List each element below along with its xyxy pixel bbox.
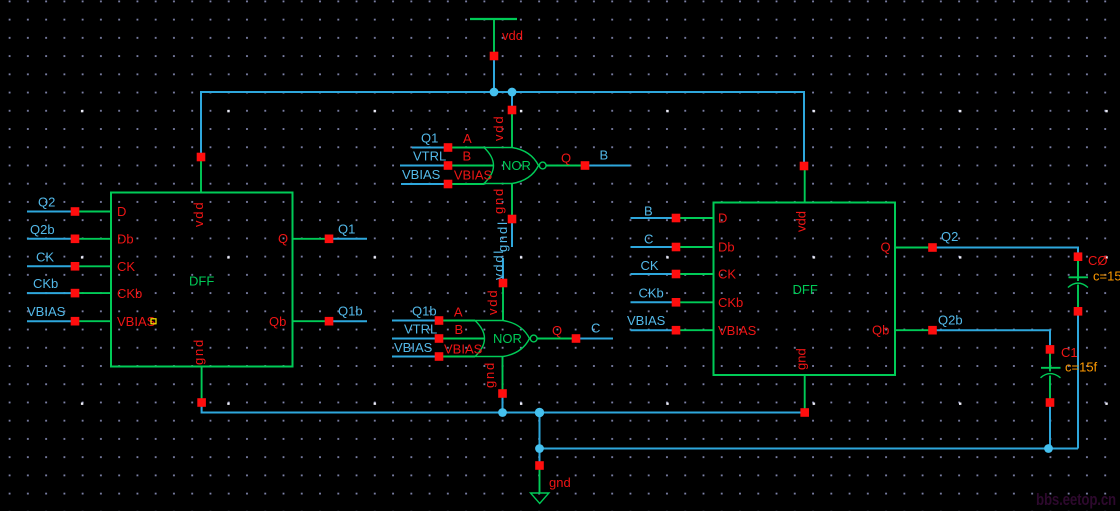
svg-text:gnd: gnd [794,348,809,370]
wire net Q2 to D [27,211,71,213]
DFF U_left box [111,193,293,367]
pin stub right gnd [804,375,806,409]
svg-text:Q1b: Q1b [338,304,363,319]
pin left rail vdd [197,153,206,162]
wire net C to right Db [631,246,673,248]
pin stub D [79,211,111,213]
node rail-NOR1 junction [508,88,517,97]
svg-text:CKb: CKb [639,285,664,300]
svg-text:Q1: Q1 [338,221,355,236]
pin stub Q [293,238,326,240]
wire gnd stem [539,413,541,462]
svg-text:VBIAS: VBIAS [27,304,66,319]
capacitor C0 bottom lead [1077,285,1079,308]
pin stub Db [79,238,111,240]
capacitor C0 bottom plate [1068,283,1088,287]
svg-text:Q2: Q2 [941,229,958,244]
pin right Db [672,243,681,252]
svg-text:CKb: CKb [117,286,142,301]
svg-text:VBIAS: VBIAS [627,313,666,328]
gnd symbol triangle [531,493,549,504]
wire net VBIAS left [27,320,71,322]
wire net Q2b to C1 [937,330,1051,345]
wire net CK left [27,265,71,267]
capacitor C1 top lead [1049,353,1051,367]
pin NOR1 VBIAS [444,180,453,189]
pin stub right CK [680,273,714,275]
svg-text:vdd: vdd [491,115,506,141]
pin NOR2 VBIAS [435,352,444,361]
wire C1 bottom to bus [1049,407,1051,449]
svg-text:VBIAS: VBIAS [394,340,433,355]
svg-text:vdd: vdd [794,211,809,232]
wire net vddl stub [502,258,504,279]
wire vdd stem [493,60,495,92]
wire net CKb left [27,292,71,294]
wire net C (NOR2 output) [580,338,613,340]
svg-text:VBIAS: VBIAS [117,314,156,329]
svg-text:C: C [591,321,600,336]
pin left Db [71,235,80,244]
pin C1 top [1046,345,1055,354]
svg-text:CK: CK [117,259,135,274]
pin NOR2 B [435,334,444,343]
pin NOR2 vdd [499,279,508,288]
pin right VBIAS [672,326,681,335]
node C1-bus junction [1044,444,1053,453]
svg-text:NOR: NOR [502,158,531,173]
NOR2 stub A [443,320,475,322]
svg-text:CKb: CKb [718,295,743,310]
pin stub right Qb [895,329,929,331]
svg-text:Q2b: Q2b [30,222,55,237]
svg-text:Q: Q [561,151,571,166]
pin NOR2 gnd [498,389,507,398]
NOR1 stub VBIAS [452,183,484,185]
svg-text:Qb: Qb [269,314,286,329]
pin NOR1 vdd [508,106,517,115]
op-gate NOR1 body [484,148,539,184]
pin NOR1 Q [581,161,590,170]
capacitor C0 top lead [1077,261,1079,278]
svg-text:C: C [644,231,653,246]
svg-text:B: B [600,148,609,163]
node gndrail-NOR2 junction [498,408,507,417]
vdd symbol bar [470,18,517,20]
svg-text:C1: C1 [1061,345,1078,360]
pin stub CK [79,265,111,267]
pin NOR1 gnd [508,215,517,224]
svg-text:gnd: gnd [491,187,506,214]
wire NOR1 input B [400,165,444,167]
pin stub left gnd [201,367,203,399]
svg-text:gnd: gnd [549,475,571,490]
pin stub VBIAS [79,320,111,322]
pin stub CKb [79,292,111,294]
pin NOR1 B [444,161,453,170]
svg-text:Q: Q [278,231,288,246]
wire NOR1 input A [412,147,444,149]
NOR2 gnd pin stub [502,357,504,390]
pin NOR1 A [444,143,453,152]
svg-text:bbs.eetop.cn: bbs.eetop.cn [1036,490,1116,509]
svg-text:CK: CK [36,249,54,264]
pin right Qb [928,326,937,335]
pin stub right D [680,217,714,219]
svg-text:vdd: vdd [191,201,206,227]
pin left VBIAS [71,317,80,326]
wire NOR1 input VBIAS [401,183,444,185]
NOR2 stub B [443,338,484,340]
wire net Q2b to Db [27,238,71,240]
svg-text:B: B [644,203,653,218]
wire net B to right D [631,217,673,219]
svg-text:DFF: DFF [793,282,818,297]
capacitor C1 center tick [1049,368,1051,372]
wire net VBIAS right [631,329,673,331]
svg-text:A: A [454,305,463,320]
pin left CKb [71,289,80,298]
wire net Q1b [333,320,367,322]
svg-text:vdd: vdd [485,289,500,315]
node stem-bus junction [535,444,544,453]
wire NOR1 vdd drop [511,92,513,106]
svg-text:vdd: vdd [502,28,523,43]
pin left D [71,207,80,216]
svg-text:Q2b: Q2b [938,313,963,328]
svg-text:D: D [117,204,126,219]
pin left gnd [197,398,206,407]
op-gate NOR2 body [475,321,530,357]
svg-text:Q2: Q2 [38,195,55,210]
wire left DFF vdd stub [200,161,202,193]
pin VBIAS tap square (yellow) [151,319,156,324]
svg-text:VBIAS: VBIAS [454,167,493,182]
NOR1 bubble [539,162,546,169]
svg-text:VTRL: VTRL [413,149,446,164]
svg-text:B: B [455,322,464,337]
svg-text:CK: CK [641,258,659,273]
wire NOR2 input B [392,338,435,340]
pin NOR2 Q [572,334,581,343]
svg-text:DFF: DFF [189,274,214,289]
wire vdd rail (top) [201,92,804,162]
svg-text:Db: Db [718,240,735,255]
svg-text:gnd: gnd [482,361,497,388]
svg-text:VTRL: VTRL [404,322,437,337]
wire C0 bottom to bus [1077,315,1079,448]
svg-text:B: B [463,149,472,164]
svg-text:VBIAS: VBIAS [444,341,483,356]
svg-text:NOR: NOR [493,331,522,346]
svg-text:Q: Q [552,323,562,338]
svg-text:VBIAS: VBIAS [718,323,757,338]
wire bottom-right bus [540,448,1079,450]
svg-text:VBIAS: VBIAS [402,167,441,182]
capacitor C0 top plate [1069,276,1089,278]
NOR2 vdd pin stub [502,287,504,321]
NOR1 stub A [452,147,484,149]
wire net Q1 [333,238,367,240]
capacitor C1 bottom lead [1049,376,1051,399]
pin stub Qb [293,320,326,322]
pin vdd stem [490,52,499,61]
pin right Q [928,243,937,252]
pin NOR2 A [435,316,444,325]
pin left Q [325,235,334,244]
pin gnd stem [535,461,544,470]
svg-text:gndl: gndl [495,220,510,252]
node gndrail-stem junction [535,408,544,417]
NOR2 output stub [537,338,572,340]
NOR1 stub B [452,165,493,167]
wire net CK right [631,273,673,275]
svg-text:A: A [463,131,472,146]
pin C0 top [1074,252,1083,261]
DFF U_right box [714,203,896,376]
svg-text:c=15f: c=15f [1093,269,1120,284]
pin stub right Db [680,246,714,248]
NOR1 output stub [546,165,581,167]
vdd symbol stem [493,19,495,52]
svg-text:Q1b: Q1b [412,304,437,319]
capacitor C1 bottom plate [1041,374,1061,378]
wire net Q2 to C0 [937,248,1079,253]
svg-text:CK: CK [718,267,736,282]
pin right CK [672,270,681,279]
NOR1 vdd pin stub [511,114,513,148]
wire net gndl stub [511,223,513,247]
pin left CK [71,262,80,271]
gnd symbol stem [539,470,541,494]
capacitor C0 center tick [1077,277,1079,281]
NOR2 stub VBIAS [443,356,475,358]
svg-text:Q1: Q1 [421,131,438,146]
wire NOR2 gnd drop [502,398,504,413]
svg-text:Q: Q [881,240,891,255]
wire net B (NOR1 output) [589,165,630,167]
svg-text:vddl: vddl [491,249,506,280]
svg-text:Db: Db [117,232,134,247]
svg-text:c=15f: c=15f [1065,360,1098,375]
capacitor C1 top plate [1041,367,1061,369]
pin right gnd [800,408,809,417]
pin right rail vdd [800,162,809,171]
pin stub right VBIAS [680,329,714,331]
svg-text:CKb: CKb [33,276,58,291]
svg-text:CØ: CØ [1088,253,1108,268]
pin left Qb [325,317,334,326]
wire net CKb right [631,301,673,303]
svg-text:D: D [718,211,727,226]
wire right DFF vdd stub [804,170,806,203]
NOR1 gnd pin stub [511,184,513,216]
pin stub right CKb [680,301,714,303]
wire NOR2 input A [392,320,435,322]
pin C1 bottom [1046,398,1055,407]
pin right CKb [672,298,681,307]
pin stub right Q [895,247,929,249]
wire gnd rail (bottom) [202,407,805,413]
wire NOR2 input VBIAS [392,356,435,358]
pin C0 bottom [1074,307,1083,316]
node rail-vdd junction [490,88,499,97]
svg-text:gnd: gnd [191,338,206,365]
NOR2 bubble [530,335,537,342]
svg-text:Qb: Qb [872,323,889,338]
pin right D [672,214,681,223]
